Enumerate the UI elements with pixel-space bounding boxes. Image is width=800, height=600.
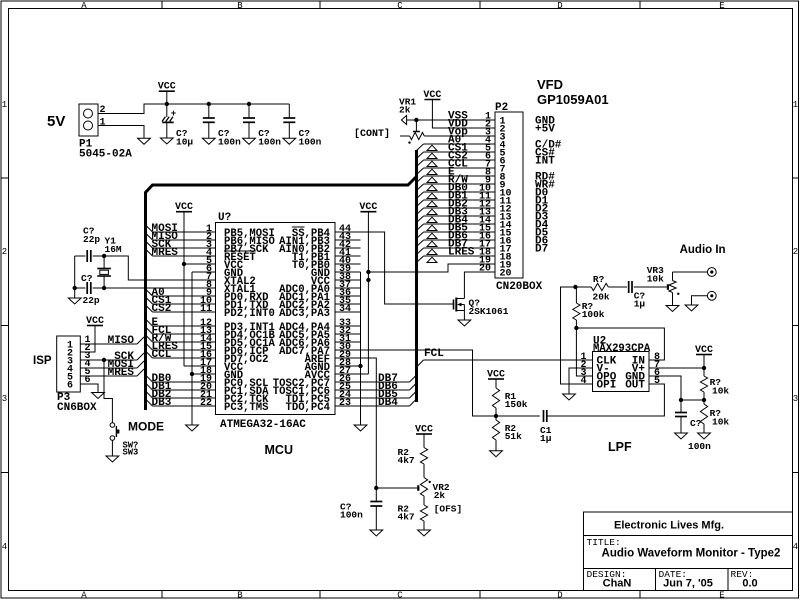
P2 pin 7 <box>485 160 506 176</box>
U? pin 24 TDI,PC5 <box>285 390 360 406</box>
U? pin 41 T1,PB1 <box>292 248 361 264</box>
svg-text:100n: 100n <box>688 441 711 452</box>
svg-text:2: 2 <box>2 247 7 257</box>
wire U2 V+ to VCC <box>649 367 704 369</box>
U? pin 17 VCC <box>200 358 244 374</box>
wire bus to U? pin 3, net SCK <box>146 239 216 251</box>
resistor R2 4k7 lower <box>423 496 425 505</box>
svg-text:CN6BOX: CN6BOX <box>57 402 97 414</box>
node VCC to P2 pin19 branch <box>366 270 370 274</box>
svg-text:150k: 150k <box>505 399 528 410</box>
wire SCK node to switch SW3 <box>104 360 112 423</box>
svg-text:3: 3 <box>2 394 7 404</box>
wire U2 GND pin to bias node <box>649 376 681 400</box>
wire P1 pin2 to VCC rail <box>98 104 289 114</box>
capacitor C? 100n bias <box>680 400 682 413</box>
svg-text:A: A <box>81 1 87 11</box>
wire bus to P2 pin 17, net DB7 <box>417 239 496 255</box>
svg-text:1: 1 <box>100 118 106 129</box>
resistor R2 4k7 upper <box>420 448 427 465</box>
U? pin 34 ADC3,PA3 <box>279 304 360 320</box>
wire bus to P2 pin 13, net DB3 <box>417 207 496 223</box>
U2 pin 7 V+ <box>632 360 660 376</box>
crystal Y1 16M <box>97 268 111 270</box>
svg-text:22: 22 <box>200 398 212 409</box>
wire VCC to U? pins 5 and 17 <box>183 212 185 366</box>
svg-text:100n: 100n <box>218 137 241 148</box>
svg-text:3: 3 <box>793 394 798 404</box>
wire crystal to XTAL2 pin 7 <box>104 256 215 280</box>
U? pin 25 TOSC1,PC6 <box>273 382 361 398</box>
capacitor C1 1u <box>543 410 545 422</box>
U2 pin 4 OPI <box>580 376 616 392</box>
U? pin 9 PD0,RXD <box>206 288 269 304</box>
P2 pin 20 <box>479 264 512 280</box>
svg-text:[CONT]: [CONT] <box>354 128 390 140</box>
svg-text:4: 4 <box>580 376 586 387</box>
ground symbol below bias cap <box>675 433 688 439</box>
capacitor C? 100n at AREF <box>375 488 377 502</box>
wire bus to U? pin 9, net A0 <box>146 287 216 299</box>
ground symbol below SW3 <box>106 456 119 462</box>
wire C? to VR3 wiper <box>634 286 667 288</box>
U? pin 37 ADC0,PA0 <box>279 280 360 296</box>
wire U? pin 24 net DB5 to bus <box>361 389 417 401</box>
capacitor C? 100n #3 <box>288 104 290 118</box>
wire bus to U? pin 1, net MOSI <box>146 223 216 235</box>
wire bus to U? pin 14, net R/W <box>146 333 216 345</box>
svg-text:D: D <box>557 591 562 600</box>
svg-text:MCU: MCU <box>265 443 293 457</box>
svg-text:20: 20 <box>479 264 491 275</box>
wire crystal to XTAL1 pin 8 <box>104 287 215 289</box>
U? pin 26 TOSC2,PC7 <box>273 374 361 390</box>
U? pin 2 PB6,MISO <box>206 232 275 248</box>
wire bus to U? pin 19, net DB0 <box>146 373 216 385</box>
node V+ <box>702 366 706 370</box>
svg-text:33: 33 <box>339 318 351 329</box>
wire P1 pin1 to ground <box>98 126 144 139</box>
U? pin 21 PC2,TCK <box>200 390 269 406</box>
svg-text:MAX293CPA: MAX293CPA <box>593 343 651 355</box>
svg-text:CN20BOX: CN20BOX <box>496 281 543 293</box>
svg-text:ATMEGA32-16AC: ATMEGA32-16AC <box>220 419 306 431</box>
svg-text:Jun 7, '05: Jun 7, '05 <box>663 578 713 590</box>
svg-text:ADC4,PA4: ADC4,PA4 <box>279 322 331 334</box>
U? pin 15 PD6,ICP <box>200 342 269 358</box>
svg-text:100k: 100k <box>582 309 605 320</box>
svg-text:4: 4 <box>793 542 798 552</box>
svg-text:Vop: Vop <box>448 127 468 139</box>
U? pin 12 PD3,INT1 <box>200 318 275 334</box>
wire bus to U? pin 15, net LRES <box>146 341 216 353</box>
wire U? pin39 GND down <box>360 272 362 425</box>
svg-text:ChaN: ChaN <box>603 578 632 590</box>
ground symbol below ISP area <box>186 425 199 431</box>
U? pin 35 ADC2,PA2 <box>279 296 360 312</box>
svg-text:2k: 2k <box>399 105 411 116</box>
svg-text:INT: INT <box>535 156 555 168</box>
svg-text:+: + <box>171 109 176 119</box>
P3 pin 1 <box>67 335 91 352</box>
ground symbol below AREF cap <box>370 530 383 536</box>
wire bus to P2 pin 12, net DB2 <box>417 199 496 215</box>
svg-text:10k: 10k <box>647 274 664 285</box>
U2 pin 8 IN <box>632 352 660 368</box>
node VSS at VR1 <box>414 118 418 122</box>
U2 pin 5 OUT <box>625 376 660 392</box>
U? pin 29 AREF <box>305 350 361 366</box>
svg-text:B: B <box>237 591 243 600</box>
ground symbol below R2 51k <box>490 451 503 457</box>
svg-text:D: D <box>557 1 562 11</box>
U2 pin 3 OPO <box>580 368 616 384</box>
P2 pin 13 <box>479 208 512 224</box>
svg-text:LPF: LPF <box>608 440 632 454</box>
switch SW? SW3 <box>110 423 115 428</box>
wire P3 pin3 SCK to bus <box>80 359 137 361</box>
wire bus to U? pin 16, net CCL <box>146 349 216 361</box>
svg-text:R?: R? <box>593 274 605 285</box>
U? pin 28 AGND <box>305 358 361 374</box>
wire bus to P2 pin 10, net DB0 <box>417 183 496 199</box>
svg-text:10k: 10k <box>712 417 729 428</box>
ground symbol below P1 pin1 <box>138 138 151 144</box>
svg-text:Electronic Lives Mfg.: Electronic Lives Mfg. <box>614 520 724 532</box>
P2 pin 11 <box>479 192 512 208</box>
wire Q? drain to P2 pin 20 <box>464 272 495 299</box>
wire U? pin 25 net DB6 to bus <box>361 381 417 393</box>
wire bus to U? pin 10, net CS1 <box>146 295 216 307</box>
U? pin 1 PB5,MOSI <box>206 224 275 240</box>
wire U? pin 26 net DB7 to bus <box>361 373 417 385</box>
wire VCC vertical to pins 38,27 and VFD supply <box>367 212 369 374</box>
wire VCC to P2 pin2 VDD <box>432 100 495 129</box>
wire C22p to crystal node <box>93 255 105 257</box>
transistor Q? 2SK1061 <box>454 298 509 318</box>
wire P3 pin1 MISO to bus <box>80 343 137 345</box>
U? pin 5 VCC <box>206 256 244 272</box>
svg-text:E: E <box>719 1 724 11</box>
frame section ticks left/right <box>1 177 9 179</box>
svg-text:Audio In: Audio In <box>680 244 726 256</box>
U? pin 4 RESET <box>206 248 256 264</box>
wire VR1 to P2 pin3 Vop <box>424 135 495 137</box>
svg-text:MRES: MRES <box>108 367 135 379</box>
svg-text:GP1059A01: GP1059A01 <box>537 92 609 107</box>
resistor R? 10k lower <box>703 400 705 404</box>
svg-text:20: 20 <box>500 269 512 280</box>
U? pin 19 PC0,SCL <box>200 374 269 390</box>
svg-text:0.0: 0.0 <box>742 578 757 590</box>
svg-text:C: C <box>397 1 403 11</box>
P2 pin 16 <box>479 232 512 248</box>
svg-text:+5V: +5V <box>535 124 555 136</box>
P2 pin 2 <box>485 120 506 136</box>
data/control bus (thick) <box>146 150 417 410</box>
capacitor C? 100n #1 <box>207 102 211 106</box>
capacitor C? 10u electrolytic <box>166 104 168 117</box>
svg-text:4: 4 <box>2 542 7 552</box>
svg-text:A: A <box>81 591 87 600</box>
P2 pin 14 <box>479 216 512 232</box>
wire bus to P2 pin 16, net DB6 <box>417 231 496 247</box>
U? pin 39 GND <box>311 264 361 280</box>
wire P3 pin6 to ground <box>80 384 98 393</box>
svg-text:CS2: CS2 <box>152 303 172 315</box>
svg-text:Audio Waveform Monitor - Type2: Audio Waveform Monitor - Type2 <box>602 548 781 560</box>
wire VCC to P2 pin 19 <box>368 264 495 272</box>
svg-text:100n: 100n <box>258 137 281 148</box>
audio input jack sleeve <box>692 296 708 305</box>
ground symbol below P3 <box>92 393 105 399</box>
U? pin 14 PD5,OC1A <box>200 334 276 350</box>
node VCC rail junction at C10u <box>165 102 169 106</box>
svg-text:100n: 100n <box>340 510 363 521</box>
U? pin 42 AIN0,PB2 <box>279 240 360 256</box>
wire C1 to U2 OUT <box>547 384 665 416</box>
U? pin 31 ADC6,PA6 <box>279 334 360 350</box>
off-page arrow [CONT] <box>401 116 406 125</box>
svg-text:C: C <box>397 591 403 600</box>
capacitor C? 22p upper <box>75 255 86 257</box>
svg-text:OUT: OUT <box>625 380 645 392</box>
U2 pin 2 V- <box>580 360 609 376</box>
connector P1 5045-02A <box>79 104 98 136</box>
wire bus to P2 pin 4, net A0 <box>417 135 496 151</box>
U? pin 30 ADC7,PA7 <box>279 342 360 358</box>
P2 pin 4 <box>485 136 506 152</box>
svg-text:100n: 100n <box>299 137 322 148</box>
P2 pin 5 <box>485 144 506 160</box>
wire U2 V- to ground <box>569 368 593 394</box>
ground symbol at Q? <box>458 320 471 326</box>
U? pin 43 AIN1,PB3 <box>279 232 360 248</box>
wire P3 pin2 to VCC <box>80 326 95 353</box>
wire GND U? pins 6,18 to ground <box>192 271 216 273</box>
ground symbol at U2 V- <box>563 394 576 400</box>
U? pin 23 TDO,PC4 <box>285 398 360 414</box>
wire bus to U? pin 20, net DB1 <box>146 381 216 393</box>
svg-text:TITLE:: TITLE: <box>587 537 621 548</box>
svg-text:1µ: 1µ <box>540 433 552 444</box>
P3 pin 5 <box>67 367 91 384</box>
P3 pin 3 <box>67 351 91 368</box>
svg-text:2: 2 <box>100 105 106 116</box>
P2 pin 10 <box>479 184 512 200</box>
P2 pin 1 <box>485 112 506 128</box>
wire U2 OPI to summing node <box>561 287 593 384</box>
U? pin 32 ADC5,PA5 <box>279 326 360 342</box>
svg-text:FCL: FCL <box>424 348 444 360</box>
resistor R? 10k upper <box>703 368 705 376</box>
ground symbol below lower 10k <box>698 433 711 439</box>
node crystal top <box>102 254 106 258</box>
wire U? pin28 AGND join <box>335 365 361 367</box>
svg-text:[OFS]: [OFS] <box>434 504 463 515</box>
U2 pin 1 CLK <box>580 352 616 368</box>
svg-text:5: 5 <box>654 376 660 387</box>
audio input jack tip <box>673 271 708 273</box>
wire bus to P2 pin 11, net DB1 <box>417 191 496 207</box>
wire bus to P2 pin 15, net DB5 <box>417 223 496 239</box>
potentiometer VR1 2k <box>399 97 424 144</box>
P2 pin 18 <box>479 248 512 264</box>
title block box <box>584 512 793 591</box>
P2 pin 12 <box>479 200 512 216</box>
svg-text:E: E <box>719 591 724 600</box>
svg-text:D7: D7 <box>535 244 548 256</box>
U? pin 44 SS,PB4 <box>292 224 361 240</box>
wire SW3 to ground <box>111 440 113 456</box>
svg-text:44: 44 <box>339 224 351 235</box>
node bias divider <box>702 398 706 402</box>
P2 pin 9 <box>485 176 506 192</box>
svg-text:4k7: 4k7 <box>398 512 415 523</box>
node AREF offset <box>374 486 378 490</box>
U? pin 22 PC3,TMS <box>200 398 269 414</box>
wire bus to U? pin 2, net MISO <box>146 231 216 243</box>
svg-text:MODE: MODE <box>128 420 164 434</box>
ground symbol at jack sleeve <box>685 305 698 311</box>
P3 pin 2 <box>67 343 91 360</box>
svg-text:OPI: OPI <box>597 380 617 392</box>
U? pin 33 ADC4,PA4 <box>279 318 360 334</box>
U? pin 7 XTAL2 <box>206 272 256 288</box>
ground symbol below U? <box>354 425 367 431</box>
wire bus to P2 pin 18, net LRES <box>417 247 496 263</box>
U? pin 3 PB7,SCK <box>206 240 269 256</box>
svg-text:20k: 20k <box>593 292 610 303</box>
U? pin 8 XTAL1 <box>206 280 256 296</box>
svg-text:C?: C? <box>81 273 93 284</box>
P3 pin 4 <box>67 359 91 376</box>
svg-text:5045-02A: 5045-02A <box>79 149 132 161</box>
svg-text:C?: C? <box>690 418 702 429</box>
wire bus to U? pin 22, net DB3 <box>146 397 216 409</box>
wire Q? source to ground <box>463 311 465 321</box>
wire U2 OPO feedback to IN <box>576 328 592 376</box>
svg-text:16M: 16M <box>105 244 122 255</box>
svg-text:ISP: ISP <box>33 355 52 367</box>
svg-text:SW3: SW3 <box>123 448 139 458</box>
wire bus to U2 CLK, net FCL <box>417 360 424 367</box>
op-amp filter U2 MAX293CPA box <box>593 352 650 392</box>
svg-text:CCL: CCL <box>152 349 172 361</box>
node SCK / MODE switch tap <box>102 358 106 362</box>
U? pin 36 ADC1,PA1 <box>279 288 360 304</box>
svg-text:4k7: 4k7 <box>398 455 415 466</box>
P3 pin 6 <box>67 375 91 392</box>
U? pin 10 PD1,TXD <box>200 296 269 312</box>
capacitor C? 100n #2 <box>247 102 251 106</box>
resistor R2 51k <box>495 416 497 420</box>
wire bus to P2 pin 9, net R/W <box>417 175 496 191</box>
ground symbol below VR3 <box>666 306 679 312</box>
svg-text:22p: 22p <box>83 295 100 306</box>
wire bus to P2 pin 6, net CS2 <box>417 151 496 167</box>
wire U? pin29 AREF to offset node <box>335 358 376 488</box>
wire offset node to VR2 wiper <box>376 487 417 489</box>
P2 pin 15 <box>479 224 512 240</box>
svg-text:VFD: VFD <box>537 77 563 92</box>
U? pin 13 PD4,OC1B <box>200 326 276 342</box>
svg-text:P2: P2 <box>495 102 508 114</box>
wire bus to U? pin 12, net E <box>146 317 216 329</box>
U? pin 27 AVCC <box>305 366 361 382</box>
wire U? pin 23 net DB4 to bus <box>361 397 417 409</box>
svg-text:MISO: MISO <box>108 335 135 347</box>
wire bus to U? pin 11, net CS2 <box>146 303 216 315</box>
U? pin 16 PD7,OC2 <box>200 350 269 366</box>
wire bus to U? pin 4, net MRES <box>146 247 216 259</box>
ground symbol below lower R2 <box>418 530 431 536</box>
svg-text:SS,PB4: SS,PB4 <box>292 228 331 240</box>
frame section ticks top/bottom <box>161 1 163 9</box>
svg-text:MRES: MRES <box>152 247 179 259</box>
wire bus to U? pin 21, net DB2 <box>146 389 216 401</box>
node audio summing <box>573 285 577 289</box>
U2 pin 6 GND <box>625 368 660 384</box>
P2 pin 17 <box>479 240 512 256</box>
svg-text:1µ: 1µ <box>634 299 646 310</box>
svg-text:PC3,TMS: PC3,TMS <box>224 402 269 414</box>
resistor R? 100k feedback <box>575 287 577 303</box>
svg-text:2: 2 <box>793 247 798 257</box>
U? pin 40 T0,PB0 <box>292 256 361 272</box>
wire bus to U? pin 13, net FCL <box>146 325 216 337</box>
P2 pin 19 <box>479 256 512 272</box>
wire P3 pin4 MOSI to bus <box>80 367 137 369</box>
svg-text:2SK1061: 2SK1061 <box>469 306 509 317</box>
wire U? pin30 ADC7 to LPF output node <box>335 350 540 416</box>
node crystal bottom <box>102 286 106 290</box>
svg-text:U?: U? <box>218 212 231 224</box>
P2 pin 8 <box>485 168 506 184</box>
svg-text:51k: 51k <box>505 431 522 442</box>
wire crystal left leg to ground <box>74 256 76 288</box>
node GND at pin 18 <box>190 372 194 376</box>
potentiometer VR2 2k <box>420 478 427 497</box>
capacitor C? 22p lower <box>75 287 86 289</box>
wire P3 pin5 MRES to bus <box>80 375 137 377</box>
ground symbol at crystal <box>68 298 81 304</box>
wire bus to P2 pin 8, net E <box>417 167 496 183</box>
resistor R1 150k <box>492 388 499 408</box>
svg-text:2k: 2k <box>434 490 446 501</box>
svg-text:B: B <box>237 1 243 11</box>
node VCC at pin 5 <box>182 262 186 266</box>
wire bus to P2 pin 14, net DB4 <box>417 215 496 231</box>
svg-text:DB3: DB3 <box>152 397 172 409</box>
svg-text:DB4: DB4 <box>378 397 398 409</box>
resistor R? 20k input <box>575 286 591 288</box>
U? pin 18 GND <box>200 366 243 382</box>
svg-text:6: 6 <box>67 381 73 392</box>
wire U? pin44 to Q? gate <box>361 232 454 304</box>
svg-text:PD2,INT0: PD2,INT0 <box>224 308 275 320</box>
svg-text:5V: 5V <box>47 113 65 130</box>
svg-text:22p: 22p <box>83 234 100 245</box>
node VCC at pin 38 <box>366 278 370 282</box>
U? pin 6 GND <box>206 264 243 280</box>
U? pin 20 PC1,SDA <box>200 382 269 398</box>
U? pin 38 VCC <box>311 272 361 288</box>
MCU U? ATMEGA32-16AC box <box>216 223 336 415</box>
wire bus to P2 pin 7, net CCL <box>417 159 496 175</box>
capacitor C? 1u input <box>608 286 627 288</box>
svg-text:10µ: 10µ <box>176 137 193 148</box>
